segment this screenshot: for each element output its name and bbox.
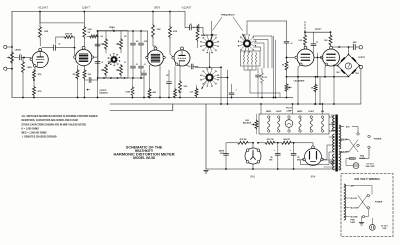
label R16 value [184,86,189,88]
wire V3 cathode pins [150,65,161,69]
capacitor C8 to range switch [185,25,203,30]
capacitor C16 electrolytic [290,143,296,170]
label R24 value [265,76,268,79]
resistor R35 1MEG [131,78,134,98]
note line 6 [22,135,57,139]
meter M1 [345,63,351,69]
wire V3 pin2 down [159,69,161,98]
wire 240 top link [350,186,373,195]
label 240 VOLT WIRING [354,177,380,181]
label R7 value [88,29,93,34]
svg-text:AMPL: AMPL [297,110,303,113]
label R31 value [267,139,274,141]
wire V4 cathode out [186,64,198,69]
label 240 BLK-GRN [351,208,359,210]
label LEVEL [15,50,22,52]
label C12 value [316,42,318,44]
resistor R31 filter [257,141,281,144]
svg-text:220: 220 [73,74,76,76]
svg-text:CALIBRATE: CALIBRATE [294,80,306,83]
label fuse [359,155,366,159]
svg-text:FUSE: FUSE [350,219,354,221]
heater H1 [268,116,270,132]
resistor R19 [195,85,198,98]
resistor R4 470K [56,36,75,48]
svg-text:OA2: OA2 [250,175,256,179]
label C16 value [297,157,301,162]
svg-text:LIGHT: LIGHT [308,111,315,113]
wire bridge left [333,65,337,67]
wire cathode mid [33,79,35,86]
wire top rail end drop [184,12,186,28]
wire plate feed link [304,31,331,33]
label 6.3V top [331,115,335,117]
capacitor C9 [167,70,172,98]
svg-text:.5: .5 [140,72,141,74]
wire 6X4 plate 2 [301,152,334,165]
tube V2 12BY7 [74,46,94,65]
wire cap to terminal [355,46,359,48]
label 6.3V mid [331,123,336,125]
wire pot bottom [286,92,288,99]
label 240 BLK [351,186,355,188]
ground transformer [330,160,335,165]
terminal INPUT lo [4,67,7,70]
plug P2 240 line cord [368,210,375,230]
wire screen sub-rail [40,12,84,23]
wire bridge right [359,65,362,68]
wire left frame [11,12,13,98]
label tube V1 type [38,6,49,10]
ground 240 [359,223,364,226]
title line 3 [113,152,174,157]
resistor R9 cathode [76,70,79,99]
label BLK [346,127,350,129]
wire to 6X4 cathode [298,143,313,147]
wire vert pair [273,36,277,98]
wire PSU left drop [205,104,207,169]
potentiometer R26 CAL [285,84,292,92]
label FREQUENCY callout [221,15,235,17]
wire nest 3 [254,43,264,68]
svg-text:TO 230 V.: TO 230 V. [381,225,389,227]
wire power sw down [360,148,369,158]
label tube V4 type [182,6,193,10]
fuse F1 [349,157,356,159]
label D1 [336,71,340,74]
wire S2 down [209,52,211,68]
svg-text:1 MEG: 1 MEG [27,67,33,69]
label R35 value [125,92,131,94]
capacitor C10 [229,84,234,98]
svg-text:BLK-YEL: BLK-YEL [351,198,358,200]
svg-text:4700: 4700 [38,73,42,76]
label C13 value [353,42,357,44]
wire callout arrow right [233,17,243,31]
title line 4 [133,156,155,160]
label C14 value [219,149,225,155]
svg-text:6X4: 6X4 [311,175,316,179]
resistor R33 cal mark [314,77,317,105]
svg-text:470K 1W: 470K 1W [65,33,72,36]
resistor R21 multiplier [247,53,249,65]
wire S3 drop [220,67,222,105]
tube V1 1/2 12AX7 [30,48,48,67]
wire bridge bottom [348,76,350,78]
label BLK-YEL [341,139,348,141]
wire mid drop [317,53,319,78]
svg-text:1500: 1500 [88,74,92,76]
svg-text:MODEL IM-58: MODEL IM-58 [133,156,155,160]
wire V1 cathode [34,67,36,70]
label balance 2 [100,91,109,94]
note line 5 [22,133,48,135]
switch S1 freq range [108,53,121,66]
svg-text:.02: .02 [58,44,60,46]
label R12 value [153,92,157,94]
capacitor C13 output [353,44,355,50]
label balance 1 [100,90,108,92]
potentiometer FREQ C [101,65,108,79]
wire output drop [360,69,362,104]
box 240V dashed [341,174,393,237]
svg-text:BALANCE: BALANCE [100,91,109,94]
label PILOT LAMP [286,108,292,113]
label C8 value [189,24,191,26]
label R28 value [324,40,329,42]
label C2v [58,44,60,46]
resistor R7 plate [83,26,86,46]
resistor R27 V5 plate [304,32,307,46]
wire sec leads [324,137,334,167]
switch S6 240 contact 1 [367,194,369,196]
capacitor C4 range [139,31,144,49]
svg-text:K = 1,000 OHMS: K = 1,000 OHMS [22,129,40,131]
wire V1 coupling takeoff [42,47,54,49]
wire cap mids [133,49,141,63]
label BLK-GRN [341,152,349,154]
wire V5 grid [286,57,295,59]
label R27 value [298,40,303,42]
label CALIBRATE [294,80,306,83]
svg-text:½12AX7: ½12AX7 [182,6,193,10]
svg-text:BALANCE: BALANCE [243,122,252,125]
wire mult bus down [249,70,251,93]
label pot C value [101,62,103,64]
svg-text:5879: 5879 [154,6,160,10]
svg-text:.0015: .0015 [144,41,148,43]
switch 240 fuse contact [362,215,364,217]
svg-text:PILOT: PILOT [286,108,292,110]
wire HV bus [226,142,237,144]
label OUTPUT [358,57,366,59]
svg-text:.05: .05 [136,64,138,66]
label FREQ [109,27,115,29]
label R13b value [166,75,169,77]
svg-text:220: 220 [166,75,169,77]
label cap C5 value [136,64,138,66]
resistor R16 V4 cathode [179,66,182,98]
potentiometer FREQ B [116,31,123,53]
box Wien bridge [98,31,128,79]
wire S3 right [217,70,228,105]
label C7 value [140,72,141,74]
potentiometer FREQ D [116,65,123,79]
svg-text:.02: .02 [316,42,318,44]
svg-text:.01: .01 [144,64,146,66]
wire callout arrow left [213,17,223,31]
tube V4 1/2 12AX7 [172,47,190,66]
note line 4 [22,129,40,131]
potentiometer FREQ A [101,31,108,53]
resistor R10 cathode [83,70,86,99]
label C17 value [291,43,293,45]
wire V2 right drop [97,57,99,98]
wire to V2 grid [55,47,75,57]
ground PSU [204,171,209,174]
wire freq leader [112,29,114,31]
box heater bank [259,114,329,134]
wire to switch A [203,28,205,37]
wire pri lead top [339,127,344,128]
label C10 value [236,90,237,92]
wire fuse to plug [346,159,349,163]
wire switch C feed [195,66,222,68]
transformer T1 secondary B [333,134,335,152]
svg-text:.05: .05 [189,24,191,26]
label POWER [374,139,382,141]
wire 240 to plug [361,217,364,222]
label 6X4 [311,175,316,179]
label C15 value [269,157,273,162]
label R25 value [282,65,285,67]
label R3 value [44,31,49,33]
wire 240 lead 4 [344,216,349,218]
title line 1 [126,145,163,149]
wire R14 to grid [170,38,174,58]
capacitor C12 coupling [311,32,316,53]
label R14 value [173,30,178,33]
resistor R8 screen [87,35,98,38]
svg-text:ALL SWITCHES SHOWN IN COUNTER: ALL SWITCHES SHOWN IN COUNTER CLOCKWISE … [22,115,98,118]
terminal INPUT hi [4,45,7,48]
label heater LIGHT [308,111,315,113]
switch S4 range fine [238,34,256,53]
wire V5 cathode [297,65,301,105]
note line 3 [22,123,87,126]
resistor R11 plate [152,24,156,47]
label tube V6 type [314,28,322,31]
op wire plate junction [39,38,41,46]
svg-text:.1: .1 [19,54,20,56]
wire 240 X cross [358,196,367,209]
label 240 POWER [375,201,383,203]
svg-text:240 VOLT WIRING: 240 VOLT WIRING [354,177,380,181]
svg-text:AMPL: AMPL [266,110,272,113]
svg-text:125: 125 [297,157,300,159]
label tube V2 type [82,6,90,10]
svg-text:LINE: LINE [383,228,387,230]
wire V2 plate out [93,30,99,57]
resistor R23 multiplier [255,53,257,65]
label R9 value [73,74,76,76]
label cap C4 value [144,41,148,43]
label heater 6X4 [321,110,325,113]
wire grid feed from switch [247,21,287,41]
capacitor C3 range [131,31,136,49]
resistor R3 plate 220K [39,11,42,38]
wire switch B top [246,21,248,35]
wire lower rail 2 [110,104,173,111]
wire nest 1 [253,36,272,68]
label R18 value [193,27,195,29]
resistor R14 grid feed [169,11,172,38]
wire cal bus [250,93,280,98]
svg-text:LEVEL: LEVEL [15,50,22,52]
resistor R25 1MEG [285,58,288,84]
label R2 value [27,67,33,69]
label R19 value [190,92,194,94]
svg-text:6800: 6800 [153,92,157,94]
wire V6 bottom [333,66,335,105]
svg-text:FREQ: FREQ [109,27,115,29]
svg-text:117 VOLT: 117 VOLT [366,163,373,165]
svg-text:BLK-GRN: BLK-GRN [351,208,359,210]
wire input hi [7,46,13,48]
label GUN BALANCE [243,120,252,125]
wire 240 lead 3 [344,207,349,209]
heater H2 [278,116,280,132]
svg-text:LAMP: LAMP [286,109,292,112]
wire multiplier drops [244,66,256,70]
capacitor C15 electrolytic [274,143,281,170]
capacitor C20 feedback [85,77,99,82]
label R15 value [201,35,206,37]
label R33 value [311,88,314,90]
transformer T1 core [335,115,337,172]
svg-text:RESISTORS, CAPACITORS ARE IN M: RESISTORS, CAPACITORS ARE IN MFD AND K O… [22,119,78,122]
label R32 value [283,139,290,141]
wire nest 2 [254,40,269,69]
svg-text:½12AX7: ½12AX7 [38,6,49,10]
svg-text:OUTPUT: OUTPUT [358,57,366,59]
switch S5 power contact 1 [357,133,359,135]
label line cord [366,163,376,168]
capacitor C19 bridge in2 [95,62,100,64]
svg-text:MEG = 1,000,000 OHMS: MEG = 1,000,000 OHMS [22,133,48,135]
wire bridge to V3 [146,31,148,58]
svg-text:BLK-RED: BLK-RED [351,217,359,219]
label 240 fuse [350,219,356,223]
label R30 value [240,138,247,141]
terminal OUTPUT hi [359,46,362,49]
switch S6 240 contact 2 [367,207,369,209]
wire mid drop 2 [319,77,321,105]
heater H5 [321,116,323,132]
note line 2 [22,119,78,122]
label R5 value [38,73,42,76]
switch S3 meter range [200,68,218,86]
wire B+ top rail [12,11,185,13]
potentiometer R34 balance [86,89,90,91]
svg-text:125: 125 [270,157,273,159]
svg-text:1K: 1K [124,62,126,64]
label R11 value [157,29,162,31]
resistor R18 [197,24,200,31]
resistor R32 filter [281,141,298,144]
svg-text:POWER: POWER [374,139,382,141]
wire V6 cathode [325,65,326,77]
bridge rectifier D1-D4 [338,55,360,77]
label 240 BLK-RED [351,217,359,219]
tube V5 meter amp [295,46,314,66]
label C1 value [19,54,20,56]
label R10 value [88,74,92,76]
wire R30 to OA2 [249,142,254,148]
box meter multiplier [241,51,261,66]
label heater AMPL [266,110,272,113]
wire V6 plate to output [332,46,349,48]
svg-text:4700 5W: 4700 5W [240,138,247,141]
capacitor C7 bypass [142,70,147,98]
note line 1 [22,115,98,118]
capacitor C17 grid [284,41,289,58]
resistor R6 cathode 2 [33,86,36,98]
wire grid V1 [23,57,31,59]
label R6 value [38,90,42,93]
svg-text:LINE CORD: LINE CORD [366,166,376,168]
capacitor C5 range [131,63,136,78]
transformer T1 primary 240 [344,184,346,220]
svg-text:1K: 1K [101,62,103,64]
svg-text:LIGHT: LIGHT [276,111,283,113]
resistor R28 V6 plate [329,32,332,46]
wire B+ dashed continuation [304,22,306,33]
label D3 [355,72,359,75]
wire ground bottom rail [12,97,293,99]
wire OA2 ground [252,164,254,170]
transformer T1 secondary C [333,154,335,170]
capacitor C1 coupling [14,55,24,60]
svg-text:POWER: POWER [375,201,383,203]
wire bridge top [98,30,148,32]
label heater AMPL [297,110,303,113]
wire switch A top [202,21,217,36]
wire V3 B+ drop [152,11,154,24]
wire lower rail [110,103,361,105]
heater H4 [310,116,312,132]
terminal OUTPUT lo [359,65,362,68]
wire bank to transformer [329,117,334,131]
plug P1 line cord [346,163,359,169]
wire 240 sw down [365,209,368,217]
label cap C6 value [144,64,146,66]
label GRN [331,131,338,133]
wire V2 cathode pins [78,65,85,69]
svg-text:FUSE: FUSE [360,155,364,157]
switch S5 power contact 3 [368,135,370,137]
node bridge pins [337,54,361,78]
wire 240 lead 1 [344,185,349,187]
svg-text:2200 7W: 2200 7W [267,139,274,141]
tube V6 meter amp [320,46,339,66]
title line 2 [135,149,154,153]
tube V8 6X4 rectifier [303,146,324,166]
switch S5 power contact 4 [368,146,370,148]
wire V5 V6 link [314,57,323,59]
label pot B value [124,36,127,38]
wire cathode bus [286,76,349,78]
